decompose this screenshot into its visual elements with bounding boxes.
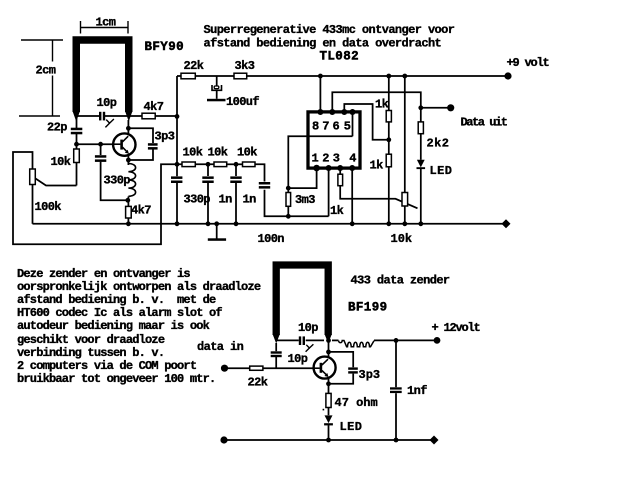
pin 4 dot xyxy=(349,165,355,171)
svg-text:10p: 10p xyxy=(97,96,117,110)
svg-text:LED: LED xyxy=(430,164,453,178)
junction dot 1n1 bottom rail xyxy=(206,221,211,226)
svg-text:3k3: 3k3 xyxy=(235,59,255,73)
wire 3m3 stubs xyxy=(287,188,289,192)
svg-text:5: 5 xyxy=(344,120,351,134)
junction dot LED rail xyxy=(418,221,423,226)
svg-text:3: 3 xyxy=(333,152,340,166)
wire 330p branch xyxy=(100,144,102,155)
wire base of Q1 xyxy=(77,143,114,145)
wire TX bottom rail xyxy=(224,439,434,441)
antenna loop RX (1cm x 2cm) xyxy=(76,40,129,112)
wire TX 1nf branch xyxy=(395,340,397,387)
capacitor 22p plates xyxy=(71,128,83,131)
resistor 10k trimpot body xyxy=(402,193,408,207)
wire cap4 to 100n net xyxy=(265,190,329,217)
capacitor 10p plates (RX series) xyxy=(99,112,101,121)
junction dot 330p base branch xyxy=(98,142,103,147)
capacitor 1nf plates xyxy=(390,387,402,389)
svg-text:4k7: 4k7 xyxy=(131,204,151,218)
capacitor 100n plates xyxy=(259,182,270,185)
trimmer arrow mark (TX 10p) xyxy=(306,344,314,352)
resistor 3m3 xyxy=(286,193,291,207)
pin 1 dot xyxy=(313,165,320,172)
wire TX 47ohm to LED xyxy=(328,408,330,416)
node TX rail diamond end xyxy=(430,436,439,445)
wire TX emitter xyxy=(328,378,330,393)
wire pot top loop xyxy=(13,152,182,244)
node TX rail left terminal xyxy=(220,436,227,443)
svg-text:afstand bediening en data over: afstand bediening en data overdracht xyxy=(204,37,442,51)
resistor 1k (upper divider) xyxy=(386,111,391,122)
wire pin2 down xyxy=(328,170,330,217)
junction dot 1k rail xyxy=(386,221,391,226)
junction dot 1n2 bottom rail xyxy=(234,221,239,226)
wire left vertical bus x=177 (rail to bottom rail) xyxy=(176,76,178,176)
junction dot chain mid2 xyxy=(234,162,239,167)
junction dot 4k7 bottom rail xyxy=(126,221,131,226)
wire collector Q1 xyxy=(127,120,129,134)
svg-text:6: 6 xyxy=(333,120,340,134)
description text block xyxy=(17,268,260,387)
svg-text:10k: 10k xyxy=(183,146,203,160)
junction dot TX 1nf top xyxy=(394,338,399,343)
svg-text:100uf: 100uf xyxy=(226,95,259,109)
svg-text:2cm: 2cm xyxy=(36,64,56,78)
junction dot collector 3p3 xyxy=(126,126,131,131)
inductor L1 (RX emitter coil) xyxy=(128,164,135,197)
capacitor 10p plates (TX shunt) xyxy=(271,351,282,353)
junction dot 330p to coil xyxy=(125,198,130,203)
trimmer arrow mark (RX 10p) xyxy=(105,119,114,127)
junction dot 10k chain x=177 y=164 xyxy=(175,162,180,167)
resistor 3k3 xyxy=(234,73,247,79)
junction dot TX 1nf rail xyxy=(394,438,399,443)
svg-text:3m3: 3m3 xyxy=(295,193,315,207)
svg-text:1k: 1k xyxy=(330,204,344,218)
wire pin8 to rail xyxy=(319,76,321,110)
wire 1k divider column xyxy=(388,76,390,111)
transistor Q1 BFY90 xyxy=(113,133,135,155)
wire TX base xyxy=(228,367,250,369)
wire pin4 to bottom rail xyxy=(351,170,353,224)
node data in terminal xyxy=(221,365,228,372)
svg-text:10k: 10k xyxy=(51,155,71,169)
svg-text:1cm: 1cm xyxy=(96,16,116,30)
wire 1n no.1 drop xyxy=(207,164,209,176)
capacitor 330p plates (chain x=177) xyxy=(171,176,182,179)
resistor 47 ohm (TX emitter) xyxy=(326,393,331,407)
wire 10k to wiper xyxy=(76,163,78,186)
svg-text:+ 12volt: + 12volt xyxy=(432,321,481,335)
wire TX collector xyxy=(328,342,330,357)
pin 8 dot xyxy=(317,109,323,115)
wire ground stub xyxy=(216,224,218,239)
wire pin1 down xyxy=(288,170,316,188)
svg-text:100k: 100k xyxy=(35,200,62,214)
capacitor 3p3 plates (RX) xyxy=(148,143,158,146)
svg-text:4: 4 xyxy=(349,152,356,166)
resistor 22k (TX base) xyxy=(250,366,263,370)
wire 22p stub xyxy=(76,118,78,128)
svg-text:1k: 1k xyxy=(370,159,384,173)
wire coil to 4k7 xyxy=(127,197,129,207)
resistor 22k (top rail) xyxy=(181,73,195,79)
wire 1n no.2 drop xyxy=(235,164,237,176)
resistor 10k no.3 (chain) xyxy=(243,162,256,167)
svg-text:330p: 330p xyxy=(184,193,211,207)
wire 4k7 to bottom rail xyxy=(127,218,129,224)
resistor 1k (pin 3) xyxy=(338,174,343,186)
wire pot bottom to rail xyxy=(32,185,34,224)
wire trimpot column xyxy=(404,76,406,193)
wire emitter Q1 to coil xyxy=(127,156,129,165)
wire TX top row y=340.4 xyxy=(276,339,299,341)
wire 100uf stub xyxy=(216,76,218,86)
svg-text:10k: 10k xyxy=(237,146,257,160)
capacitor 1n no.2 plates xyxy=(230,176,241,179)
junction dot rail x=388.8 xyxy=(386,74,391,79)
capacitor 10p plates (TX series) xyxy=(299,336,301,345)
dimension 2cm xyxy=(19,40,63,116)
wire bottom rail y=223.8 xyxy=(33,223,507,225)
junction dot divider mid xyxy=(386,137,391,142)
LED D1 (RX) xyxy=(417,160,426,169)
resistor 2k2 xyxy=(418,122,423,134)
junction dot rail x=320.4 xyxy=(318,74,323,79)
wire 3p3 branch xyxy=(128,128,153,143)
resistor 10k no.2 (chain) xyxy=(214,162,227,167)
junction dot rail x=404.8 xyxy=(402,74,407,79)
svg-text:3p3: 3p3 xyxy=(155,130,175,144)
ground symbol (bottom rail) xyxy=(208,238,226,241)
svg-text:1nf: 1nf xyxy=(407,384,427,398)
resistor 1k (lower divider) xyxy=(386,154,391,167)
pin 7 dot xyxy=(329,109,335,115)
svg-text:2: 2 xyxy=(322,152,329,166)
wire pin5 to 3m3 node xyxy=(288,136,352,188)
resistor 4k7 (emitter) xyxy=(126,206,132,218)
junction dot trimpot rail xyxy=(402,221,407,226)
LED D2 (TX) xyxy=(324,415,333,425)
capacitor 330p plates (base) xyxy=(95,155,106,158)
svg-text:TL082: TL082 xyxy=(320,50,360,64)
pin 6 dot xyxy=(341,109,347,115)
pin 3 dot xyxy=(337,165,343,171)
capacitor 3p3 plates (TX) xyxy=(348,367,358,369)
svg-text:10p: 10p xyxy=(288,352,308,366)
op-amp U1 TL082 body xyxy=(308,112,360,168)
antenna loop TX xyxy=(276,265,328,335)
wire pin5 internal vertical xyxy=(352,112,354,136)
wire antenna bottom row y=116 xyxy=(77,115,100,117)
resistor 4k7 (antenna row) xyxy=(142,113,155,119)
wire +9V top rail xyxy=(177,75,508,77)
wire 10k chain segments xyxy=(195,163,214,165)
resistor 100k potentiometer body xyxy=(30,169,36,185)
svg-text:100n: 100n xyxy=(258,232,285,246)
wire data uit xyxy=(421,107,448,109)
stray mark near 47 ohm xyxy=(323,409,325,411)
dimension 1cm xyxy=(81,21,129,34)
junction dot TX collector 3p3 xyxy=(326,350,331,355)
wire pin6 to 1k divider xyxy=(344,104,389,140)
resistor 10k no.1 (chain) xyxy=(182,162,195,167)
junction dot 4k7/22k x=177 y=116 xyxy=(175,114,180,119)
svg-text:1n: 1n xyxy=(243,193,257,207)
junction dot TX emitter 3p3 xyxy=(326,381,331,386)
pin 5 dot xyxy=(350,109,356,115)
node Data uit terminal xyxy=(447,104,454,111)
junction dot data-uit node xyxy=(418,105,423,110)
pin 2 dot xyxy=(326,165,332,171)
wire pin3 resistor to trimmer arrow xyxy=(339,170,341,175)
inductor L2 (TX collector choke) xyxy=(339,341,374,347)
svg-text:10k: 10k xyxy=(391,232,413,246)
junction dot base node xyxy=(74,142,79,147)
svg-text:3p3: 3p3 xyxy=(359,368,381,382)
node +12 volt terminal xyxy=(434,337,441,344)
junction dot emitter 3p3 xyxy=(126,158,131,163)
svg-text:Superregenerative 433mc ontvan: Superregenerative 433mc ontvanger voor xyxy=(204,23,455,37)
junction dot pin4 rail xyxy=(350,221,355,226)
junction dot TX LED rail xyxy=(326,438,331,443)
svg-text:433 data zender: 433 data zender xyxy=(351,274,450,288)
wire TX LED to rail xyxy=(328,425,330,440)
svg-text:+9 volt: +9 volt xyxy=(507,56,550,70)
resistor 10k (vertical, base) xyxy=(74,149,80,163)
svg-text:2k2: 2k2 xyxy=(427,137,450,151)
svg-text:47 ohm: 47 ohm xyxy=(335,396,378,410)
svg-text:330p: 330p xyxy=(104,174,131,188)
transistor Q2 BF199 xyxy=(314,357,336,379)
svg-text:22k: 22k xyxy=(184,59,204,73)
capacitor 1n no.1 plates xyxy=(202,176,213,179)
junction dot ground stub xyxy=(214,221,219,226)
junction dot TX ant right foot xyxy=(326,338,331,343)
svg-text:BF199: BF199 xyxy=(348,301,388,315)
ground bar under 100uf xyxy=(207,99,226,102)
svg-text:10p: 10p xyxy=(298,321,318,335)
wire TX 3p3 branch xyxy=(329,352,354,367)
svg-text:8: 8 xyxy=(312,120,319,134)
node bottom rail diamond end xyxy=(502,219,511,228)
svg-text:1: 1 xyxy=(312,152,319,166)
junction dot 3m3 top xyxy=(286,186,291,191)
svg-text:LED: LED xyxy=(340,420,363,434)
wire pin7 to data-uit node xyxy=(332,92,421,110)
svg-text:22p: 22p xyxy=(47,121,67,135)
wire TX 10p lower branch xyxy=(275,343,277,351)
svg-text:BFY90: BFY90 xyxy=(145,40,185,54)
junction dot 3m3 bottom 100n net xyxy=(286,214,291,219)
junction dot x177 bottom rail xyxy=(175,221,180,226)
wire pot wiper xyxy=(34,178,77,186)
svg-text:1n: 1n xyxy=(219,193,233,207)
wire 2k2 LED column xyxy=(420,108,422,122)
node +9 volt terminal xyxy=(504,72,511,79)
svg-text:10k: 10k xyxy=(208,146,228,160)
svg-text:4k7: 4k7 xyxy=(144,100,164,114)
capacitor 100uf electrolytic cup xyxy=(212,85,222,90)
svg-text:1k: 1k xyxy=(375,98,389,112)
junction dot chain mid1 xyxy=(206,162,211,167)
svg-text:Data uit: Data uit xyxy=(461,116,508,130)
svg-text:7: 7 xyxy=(322,120,329,134)
